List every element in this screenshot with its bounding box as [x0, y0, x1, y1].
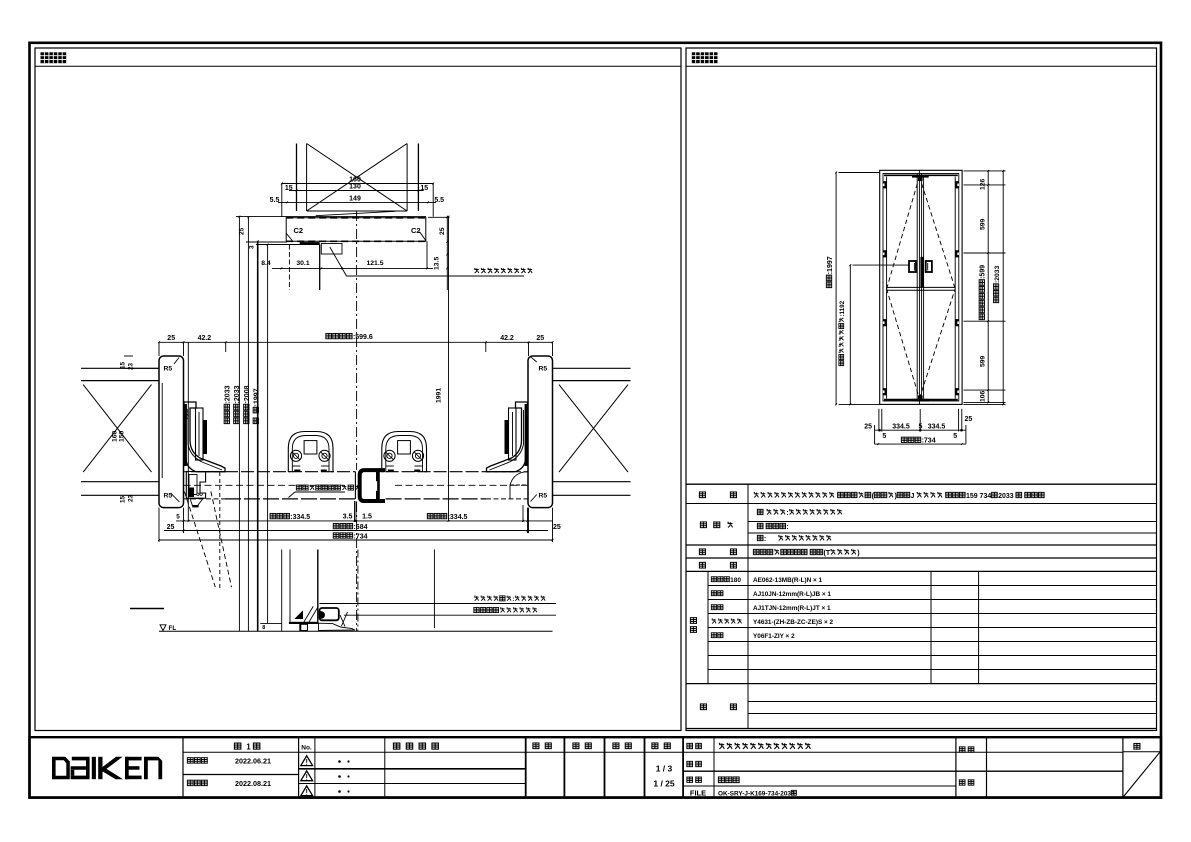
svg-text:5.5: 5.5	[434, 197, 444, 204]
svg-text:15: 15	[120, 495, 127, 503]
svg-text:16.5: 16.5	[184, 408, 190, 420]
svg-text:25: 25	[439, 227, 446, 235]
bottom dashed diagonals	[184, 492, 215, 588]
svg-text::599: :599	[980, 265, 987, 279]
svg-text:25: 25	[167, 335, 175, 342]
lintel	[286, 218, 426, 242]
svg-text:106: 106	[980, 390, 987, 402]
svg-text:130: 130	[349, 184, 361, 191]
leader フランス落し	[320, 603, 557, 605]
stopper hatch diagonals	[309, 606, 319, 622]
stopper foot triangle	[296, 612, 303, 619]
svg-text:5.5: 5.5	[270, 197, 280, 204]
header X brace	[307, 144, 408, 212]
svg-text::684: :684	[353, 524, 367, 531]
center pivot bracket	[360, 470, 385, 501]
magnet catch label	[474, 268, 479, 273]
svg-text::334.5: :334.5	[290, 514, 310, 521]
title block header line	[183, 751, 1123, 753]
label 名称	[687, 743, 693, 748]
right dim line intervals	[987, 171, 989, 403]
spec table outline	[686, 483, 1157, 485]
leader 下部戸当りストッパー	[344, 614, 556, 616]
left jamb	[159, 356, 184, 508]
svg-text:): )	[894, 493, 896, 500]
svg-text::: :	[786, 524, 788, 531]
dashed vertical 220	[219, 472, 221, 590]
bottom detail center dashed	[357, 550, 359, 632]
door leaf edges	[886, 177, 888, 399]
label 品番	[687, 761, 693, 766]
left rotated 25 3 labels	[239, 227, 246, 235]
svg-text::1997: :1997	[827, 256, 834, 274]
top dim row 599.6	[159, 341, 553, 343]
date cell mid line	[183, 774, 299, 776]
svg-text:160: 160	[112, 430, 119, 442]
name rows lines	[683, 770, 1123, 772]
svg-text:2022.08.21: 2022.08.21	[235, 779, 271, 788]
svg-text::: :	[764, 536, 766, 543]
door bars	[225, 471, 355, 473]
sub label ストッパー	[712, 619, 716, 624]
revision history header 改訂履歴	[393, 743, 399, 749]
svg-text:5: 5	[953, 433, 957, 440]
sub label 固定枠	[711, 577, 716, 582]
left hanging block	[288, 245, 290, 291]
front-view panel frame	[686, 48, 1157, 731]
svg-text:2033: 2033	[998, 493, 1014, 500]
top dim 130	[289, 190, 424, 192]
title block verticals	[182, 737, 184, 797]
front bottom extension lines	[878, 409, 880, 432]
stopper wedge	[319, 623, 356, 630]
bottom dim line C	[159, 539, 553, 541]
svg-text:15: 15	[285, 185, 293, 192]
lintel right dims	[446, 216, 448, 290]
dim line 枠外高2033	[1002, 171, 1004, 405]
svg-text:25: 25	[167, 524, 175, 531]
front door frame inner	[883, 174, 959, 402]
svg-text:334.5: 334.5	[928, 423, 946, 430]
date row 改訂日	[187, 780, 193, 785]
svg-text::599.6: :599.6	[353, 334, 373, 341]
svg-text:8.4: 8.4	[261, 260, 271, 267]
value おもいやりキッズシリーズ	[719, 743, 724, 749]
svg-text:25: 25	[536, 335, 544, 342]
label 備考	[700, 704, 706, 710]
panel title 断面図	[41, 52, 49, 63]
value 枠	[757, 535, 763, 540]
svg-text:AJ10JN-12mm(R-L)JB × 1: AJ10JN-12mm(R-L)JB × 1	[753, 591, 831, 598]
svg-text:AJ1TJN-12mm(R-L)JT × 1: AJ1TJN-12mm(R-L)JT × 1	[753, 605, 831, 612]
svg-text:42.2: 42.2	[198, 335, 212, 342]
svg-text:C2: C2	[411, 226, 421, 235]
value 扉パネル	[757, 509, 763, 514]
opening direction dashed diamond	[887, 177, 920, 289]
svg-text:126: 126	[980, 178, 987, 190]
svg-text:160: 160	[349, 176, 361, 183]
wall right	[553, 367, 631, 369]
front panel title bar line	[686, 65, 1157, 67]
handles	[909, 261, 916, 272]
sub label 引手	[711, 633, 716, 638]
svg-text:5: 5	[919, 423, 923, 430]
svg-text:FILE: FILE	[690, 788, 706, 797]
section-view panel frame	[35, 48, 681, 731]
adjustment note	[296, 485, 301, 490]
svg-text:AE062-13MB(R-L)N × 1: AE062-13MB(R-L)N × 1	[753, 577, 823, 584]
bottom dim line B	[164, 530, 548, 532]
svg-text::2033: :2033	[994, 265, 1001, 283]
long vertical dim lines	[238, 217, 240, 632]
svg-text:23: 23	[128, 494, 135, 502]
svg-text:2022.06.21: 2022.06.21	[235, 756, 271, 765]
label 件名	[959, 747, 965, 752]
svg-text::: :	[512, 596, 514, 603]
dim line 1192	[849, 265, 851, 404]
FL line	[159, 630, 553, 632]
svg-text:1991: 1991	[436, 388, 443, 403]
svg-text:R5: R5	[164, 366, 173, 373]
left hinge lower bracket	[186, 472, 205, 499]
centerline	[356, 211, 358, 470]
label 把手	[699, 549, 705, 555]
svg-text:C2: C2	[294, 226, 304, 235]
door mid rail	[887, 286, 956, 288]
front bottom dim line 2	[875, 443, 966, 445]
svg-text:R5: R5	[539, 366, 548, 373]
title block frame	[30, 737, 1162, 797]
wall left	[81, 367, 159, 369]
svg-text:25: 25	[239, 227, 246, 235]
label 頁	[1134, 743, 1140, 749]
lintel right extension	[426, 241, 428, 268]
svg-text:): )	[857, 550, 859, 557]
date row 制定日	[187, 758, 193, 763]
extension line 188	[187, 342, 189, 521]
svg-text::334.5: :334.5	[448, 514, 468, 521]
svg-text:13.5: 13.5	[434, 257, 441, 270]
top extension lines	[281, 184, 283, 217]
svg-text::1997: :1997	[254, 388, 261, 406]
top dim 149	[278, 201, 436, 203]
bottom small box	[300, 624, 308, 630]
value 把手	[753, 549, 759, 554]
svg-text::734: :734	[353, 533, 367, 540]
header 作成	[613, 743, 619, 749]
front door frame outer	[880, 170, 962, 404]
svg-text:Y06F1-ZIY × 2: Y06F1-ZIY × 2	[753, 633, 795, 640]
svg-text:(T: (T	[824, 550, 831, 557]
edition header 第 1 版	[234, 743, 240, 749]
sub label 受側	[711, 605, 716, 610]
svg-text:599: 599	[980, 218, 987, 230]
value 三面図	[718, 777, 724, 783]
revision row lines	[299, 768, 526, 770]
right jamb	[528, 356, 553, 508]
label 吊元	[699, 562, 705, 568]
meeting stile dark bar	[920, 257, 923, 288]
svg-text:5: 5	[176, 513, 180, 520]
svg-text::2033: :2033	[234, 385, 241, 403]
header 確認	[573, 743, 579, 749]
dim 1991 line	[448, 217, 450, 521]
svg-text::2033: :2033	[225, 385, 232, 403]
label 型式	[699, 492, 705, 498]
short segment near FL	[260, 622, 281, 624]
magnet catch leader	[330, 247, 524, 276]
hinge cup left	[288, 432, 333, 472]
svg-text:R5: R5	[539, 493, 548, 500]
top pivot mark	[912, 175, 929, 178]
svg-text::2008: :2008	[244, 385, 251, 403]
label 仕上げ	[700, 522, 706, 528]
bottom pivot mark	[912, 399, 929, 402]
svg-text:1.5: 1.5	[362, 513, 372, 520]
svg-text:1: 1	[246, 742, 251, 751]
bottom dim line A	[176, 520, 553, 522]
dim 30.1 121.5 line	[272, 267, 433, 269]
svg-text:Y4631-(ZH-ZB-ZC-ZE)S × 2: Y4631-(ZH-ZB-ZC-ZE)S × 2	[753, 619, 834, 626]
revision triangles	[301, 756, 313, 766]
svg-text::734: :734	[922, 438, 936, 445]
svg-text:23: 23	[128, 362, 135, 370]
left hinge hardware	[184, 402, 225, 472]
label 品番 vertical	[690, 618, 696, 624]
wall thickness labels 160 150	[112, 430, 119, 442]
packing strip	[300, 242, 320, 245]
svg-text:8: 8	[262, 625, 265, 631]
svg-text:OK-SRY-J-K169-734-2033-: OK-SRY-J-K169-734-2033-	[718, 790, 797, 797]
svg-text:J: J	[911, 493, 915, 500]
floor stopper body	[320, 608, 339, 620]
svg-text:1 / 3: 1 / 3	[656, 763, 673, 773]
header 承認	[533, 743, 539, 749]
value 型式	[754, 493, 759, 498]
FL mark	[160, 625, 166, 631]
svg-text:149: 149	[349, 196, 361, 203]
label 図名	[687, 777, 693, 782]
svg-text:5: 5	[882, 433, 886, 440]
svg-text:15: 15	[420, 185, 428, 192]
svg-text::: :	[786, 510, 788, 517]
svg-text:25: 25	[864, 423, 872, 430]
page cell diagonal	[1123, 752, 1160, 797]
svg-text:25: 25	[965, 416, 973, 423]
magnet catch box	[321, 244, 342, 255]
svg-text:159 734: 159 734	[966, 493, 991, 500]
svg-text:42.2: 42.2	[500, 335, 514, 342]
value 扉採光部	[757, 523, 763, 528]
revision date dots	[338, 760, 341, 763]
panel title 正面図	[692, 52, 700, 63]
sub label 吊側	[711, 591, 716, 596]
lintel dashed edges	[286, 217, 426, 219]
door top leaf edges	[884, 174, 958, 176]
bottom detail right vertical	[433, 550, 435, 629]
svg-text:180: 180	[730, 577, 741, 584]
header board	[307, 210, 408, 212]
leaf centre dashed line	[184, 484, 346, 486]
dim line 扉高1997	[835, 173, 837, 405]
bottom extension lines	[158, 508, 160, 542]
svg-text::1192: :1192	[839, 300, 846, 316]
svg-text:1 / 25: 1 / 25	[653, 778, 675, 788]
jamb small dims left	[120, 361, 127, 369]
right hinge hardware	[487, 402, 528, 472]
top dim 160	[282, 183, 433, 185]
label 図員	[959, 780, 965, 785]
svg-text:3: 3	[249, 245, 256, 249]
section panel title bar line	[35, 65, 681, 67]
DAIKEN logo	[52, 757, 70, 779]
left bracket foot	[190, 499, 203, 506]
spec table sub row lines	[748, 521, 1157, 523]
svg-text:599: 599	[980, 355, 987, 367]
hinge marks	[883, 181, 887, 188]
svg-text:334.5: 334.5	[892, 423, 910, 430]
spec table verticals	[747, 484, 749, 728]
svg-text:150: 150	[119, 430, 126, 442]
bottom rod lines	[281, 550, 283, 632]
header studs	[296, 144, 298, 212]
svg-text:30.1: 30.1	[296, 260, 309, 267]
vertical dim labels	[224, 385, 231, 423]
svg-text:121.5: 121.5	[366, 260, 383, 267]
header 縮尺	[652, 743, 658, 749]
right hinge lower corner	[510, 472, 528, 499]
svg-text:No.: No.	[301, 745, 312, 752]
front bottom dim line 1	[875, 429, 966, 431]
svg-text:3.5: 3.5	[343, 513, 353, 520]
svg-text:25: 25	[553, 524, 561, 531]
